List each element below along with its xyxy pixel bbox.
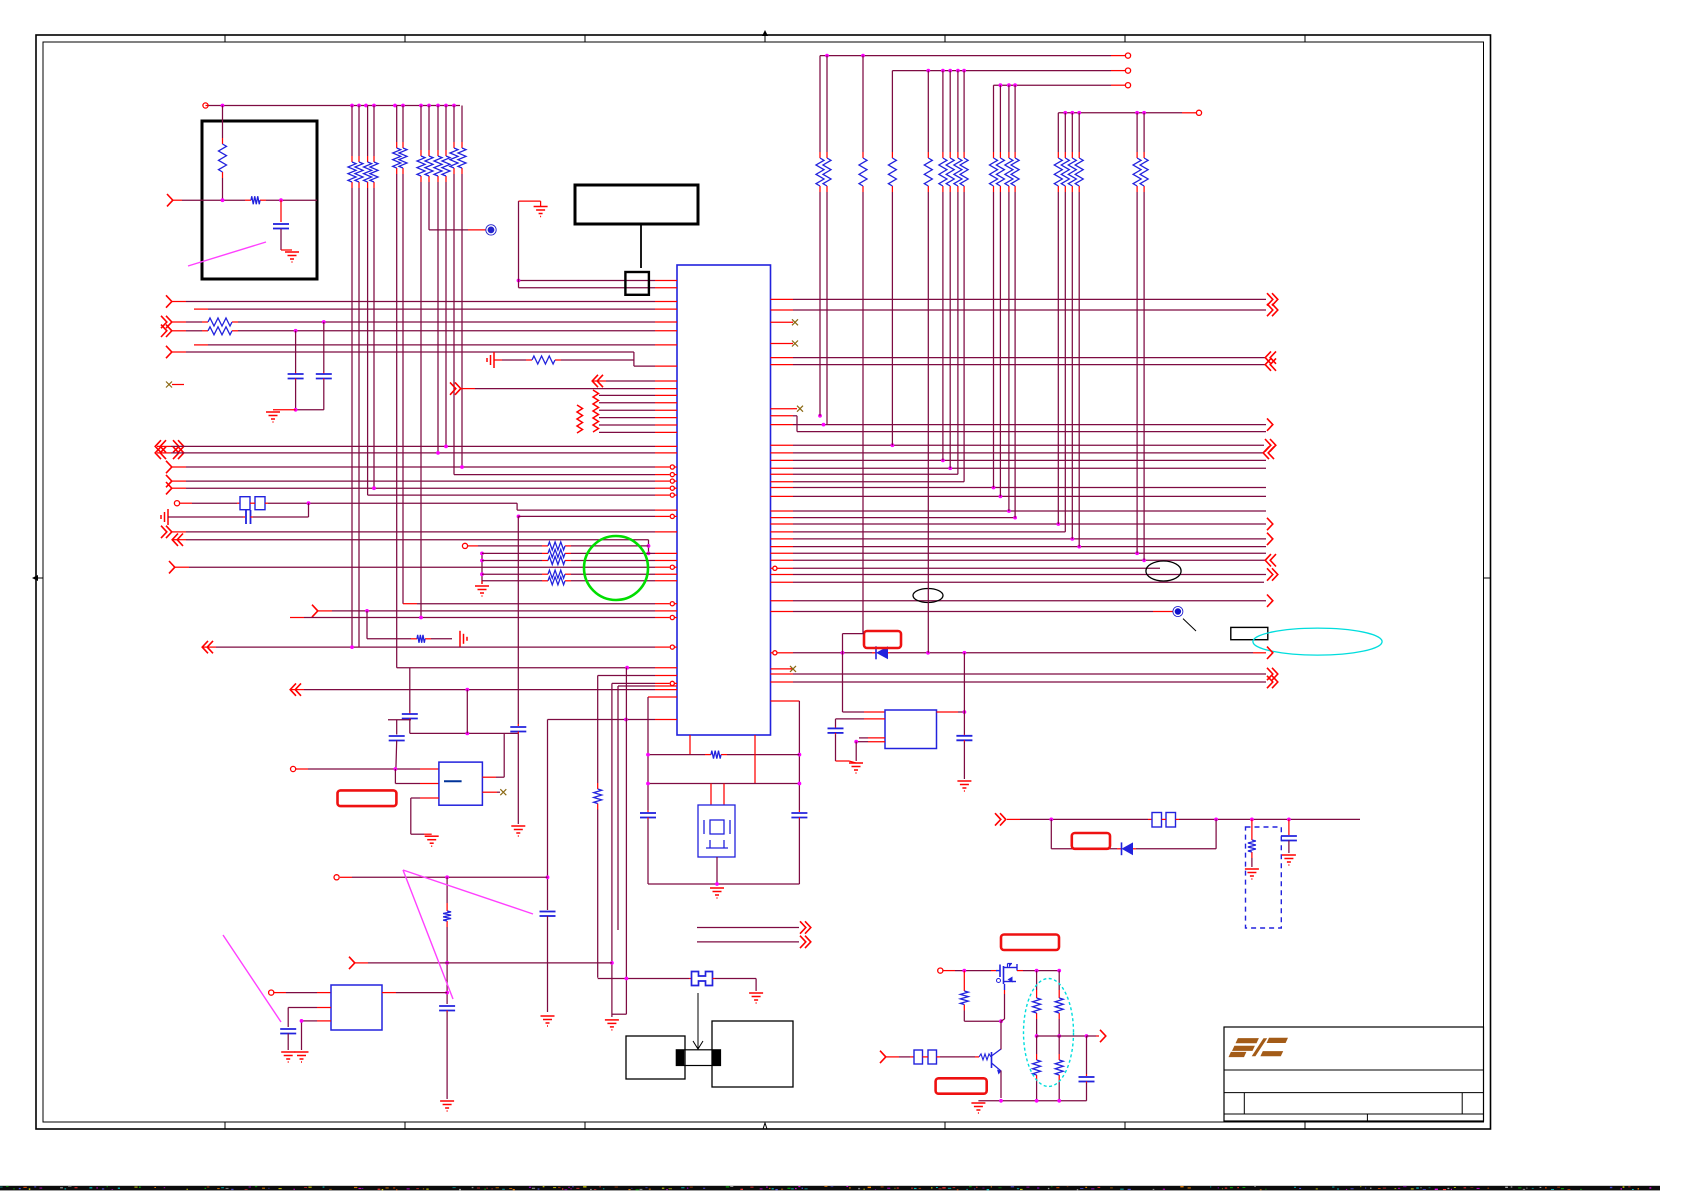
wire rbus y682	[771, 676, 1278, 688]
wire rbus y518	[771, 516, 1017, 520]
wire U4 feed horiz	[843, 633, 864, 635]
wire bus y675	[598, 675, 677, 677]
ground U3 b	[295, 1052, 309, 1062]
wire bus y532	[161, 526, 677, 538]
wire opamp gnd	[411, 798, 439, 834]
wire res-bayonet y639	[367, 611, 411, 639]
wire vertical bus x403	[402, 106, 404, 604]
wire pullup vert x1058.3	[1057, 113, 1059, 524]
resistor R3	[202, 318, 677, 326]
wire rbus stub y343	[771, 341, 799, 347]
wire to bayonet	[431, 638, 452, 640]
wire bus cluster6 line 4	[599, 417, 677, 419]
ground U3 a	[281, 1052, 295, 1062]
wire bjt collector	[1000, 1048, 1002, 1098]
highlight red box opamp	[338, 790, 397, 806]
wire U3 in	[274, 992, 331, 994]
wire vertical bus x438	[437, 106, 439, 453]
resistor R12 vertical	[594, 783, 602, 810]
test point blue dot 2	[486, 225, 496, 235]
ground bottom rail	[971, 1103, 985, 1113]
wire pullup vert x957.9	[957, 71, 959, 475]
resistor RA2	[355, 156, 363, 188]
wire gnd-res y360	[502, 359, 526, 361]
wire rbus y601	[771, 595, 1273, 607]
wire U3 pin2	[288, 1008, 331, 1028]
wire rbus y474	[771, 473, 958, 475]
wire top feeder	[206, 105, 461, 107]
wire rbus y532	[771, 531, 1066, 533]
annotation leader line	[1183, 619, 1196, 631]
label box	[1231, 627, 1268, 639]
wire bus y496	[368, 493, 677, 497]
wire bus y611	[312, 605, 677, 617]
highlight red box diode2	[1072, 833, 1110, 849]
wire pullup vert x1079.2	[1078, 113, 1080, 547]
resistor RB6	[939, 152, 947, 192]
wire rbus y299	[771, 293, 1278, 305]
wire diode loop b	[1133, 819, 1216, 848]
wire out y1036	[1037, 1030, 1106, 1042]
wire bottom rail	[978, 1099, 1086, 1103]
ground opamp	[425, 836, 439, 846]
resistor RB15	[1061, 152, 1069, 192]
wire C14 gnd	[963, 740, 965, 779]
resistor R10	[542, 577, 571, 585]
socket X1 (black square)	[625, 272, 649, 295]
wire crystal gnd line	[168, 516, 245, 518]
wire pullup vert x1072.3	[1071, 113, 1073, 539]
wire ellipse res vert a	[1036, 971, 1038, 992]
wire rc vertical	[480, 552, 484, 585]
wire crystal bottom	[648, 857, 799, 886]
wire res row y754	[646, 753, 801, 757]
wire res to jog	[561, 359, 634, 361]
wire cap branch a	[295, 331, 297, 374]
wire rbus y310	[771, 304, 1278, 316]
wire pullup feeder 3	[994, 83, 1131, 88]
terminal reg-line	[334, 875, 339, 880]
wire U3 pin2 gnd	[287, 1034, 289, 1051]
wire vert x547 drop b	[547, 916, 549, 1012]
wire crystal line b	[265, 501, 517, 505]
wire mosfet a	[943, 969, 997, 973]
capacitor C8	[510, 727, 526, 732]
highlight ellipse 2	[913, 589, 943, 603]
wire rbus y539	[771, 533, 1273, 545]
wire ellipse res a2	[1035, 1019, 1039, 1038]
wire opamp out up	[482, 733, 504, 777]
highlight red box power top	[1001, 935, 1059, 951]
wire mosfet drain down	[1001, 990, 1005, 1021]
wire bus y690	[290, 683, 677, 695]
resistor RB2	[823, 152, 831, 192]
wire bus y604	[403, 602, 677, 606]
resistor RA3	[364, 156, 372, 188]
wire pullup vert x1144.1	[1143, 113, 1145, 561]
filter FB2 (two boxes)	[914, 1050, 937, 1064]
annotation arrow	[693, 993, 703, 1049]
resistor R8	[542, 557, 571, 565]
capacitor C17	[1079, 1077, 1095, 1082]
ground caps	[266, 412, 280, 422]
ground fuse	[749, 993, 763, 1003]
red squiggle arrow column 2	[593, 390, 599, 432]
wire vertical into J1	[222, 106, 224, 139]
fuse F1	[692, 972, 713, 986]
wire vert x1001	[1000, 1021, 1002, 1048]
wire bus PCI3 w/ resistor	[161, 325, 202, 337]
resistor RB12	[1005, 152, 1013, 192]
capacitor C7	[540, 912, 556, 917]
pink annotation line M1	[403, 870, 533, 914]
diode D2	[1122, 842, 1134, 855]
wire rc y546	[468, 545, 542, 547]
resistor R17 base squiggle	[979, 1054, 991, 1060]
capacitor C14	[956, 736, 972, 741]
bottom scanline artifact strip	[0, 1186, 1660, 1191]
wire into dashed box	[1251, 819, 1253, 834]
wire opamp out x	[482, 791, 500, 793]
node dot	[221, 198, 283, 202]
wire vert x597 drop	[597, 676, 599, 784]
highlight green circle	[584, 536, 648, 600]
wire cap drop	[280, 200, 282, 222]
wire pullup feeder 4	[1058, 110, 1201, 115]
no-connect x stub left	[166, 382, 184, 388]
wire to testpoint	[429, 229, 486, 231]
wire vert x618 drop	[617, 686, 619, 930]
wire bus y618	[290, 615, 677, 619]
wire rbus stub y322	[771, 319, 799, 325]
wire bus y516	[517, 514, 677, 518]
wire rbus y652 a	[771, 651, 877, 655]
highlight cyan ellipse right	[1253, 628, 1382, 655]
wire crystal drop	[308, 503, 310, 517]
resistor R11	[411, 635, 431, 643]
resistor RA7	[417, 150, 425, 182]
resistor R15 vertical	[1248, 834, 1256, 858]
resistor RB3	[859, 152, 867, 192]
wire cap branch b	[323, 322, 325, 374]
wire ellipse res vert b	[1058, 971, 1060, 992]
wire vert x447 c	[446, 1011, 448, 1100]
x mark opamp	[500, 789, 506, 795]
highlight ellipse 1	[1146, 561, 1181, 581]
wire pullup vert x1065.3	[1064, 113, 1066, 532]
resistor RB10	[990, 152, 998, 192]
wire C13 gnd	[836, 733, 850, 761]
wire U4 pin3	[859, 737, 885, 739]
resistor R13	[705, 751, 727, 759]
wire rbus y431	[797, 431, 1266, 433]
resistor R6	[542, 542, 571, 550]
wire rc y574b	[571, 573, 677, 575]
capacitor C9	[640, 813, 656, 818]
resistor RB7	[946, 152, 954, 192]
ground x547	[541, 1016, 555, 1026]
resistor RB1	[816, 152, 824, 192]
wire fuse line b	[713, 979, 757, 992]
wire pullup feeder 2	[892, 68, 1130, 73]
jumper body	[676, 1050, 720, 1066]
IC U1 main chip body	[677, 265, 771, 735]
wire bjt base line b	[937, 1056, 980, 1058]
wire pullup vert x1008.9	[1008, 85, 1010, 511]
capacitor C2	[288, 374, 304, 379]
ground C14	[957, 781, 971, 791]
wire port to R2	[173, 199, 245, 201]
wire rbus y424	[771, 418, 1273, 430]
wire port hook	[519, 201, 541, 206]
wire rbus y582	[771, 581, 1265, 583]
wire bjt base line	[886, 1056, 914, 1058]
wire to ground	[273, 409, 296, 411]
resistor RB9	[960, 152, 968, 192]
wire y963	[355, 962, 612, 964]
wire rbus y468	[771, 466, 1267, 470]
ground	[285, 252, 299, 262]
wire res row y754 b	[727, 754, 799, 756]
resistor RA10	[442, 150, 450, 182]
wire cap drop x1086 b	[1086, 1082, 1088, 1101]
ground x447	[440, 1101, 454, 1111]
resistor RB13	[1011, 152, 1019, 192]
wire vert x964	[963, 653, 965, 736]
wire rbus y524	[771, 518, 1273, 530]
wire rbus y496	[771, 495, 1267, 499]
wire pullup feeder 1	[820, 53, 1131, 58]
wire vertical bus x429	[428, 106, 430, 230]
wire U3 out	[382, 992, 447, 994]
wire rbus y611	[771, 611, 1174, 613]
wire bus cluster6 line 5	[599, 424, 677, 426]
wire rbus y445	[771, 439, 1276, 451]
ground R15	[1245, 869, 1259, 879]
resistor RB18	[1133, 152, 1141, 192]
wire bus y481	[166, 475, 677, 487]
capacitor C3	[316, 374, 332, 379]
wire vert x467	[466, 690, 468, 734]
wire chev pair a	[697, 921, 811, 933]
wire rc y561b	[571, 560, 677, 562]
wire pullup vert x964.1	[963, 71, 965, 482]
resistor RA12	[458, 142, 466, 174]
wire rbus y674	[771, 668, 1278, 680]
transistor Q1 (MOSFET)	[996, 964, 1017, 991]
wire reg-line	[340, 875, 548, 879]
wire C16 gnd	[1288, 841, 1290, 854]
wire R15 gnd	[1251, 858, 1253, 867]
resistor R19 vertical	[1033, 1054, 1041, 1081]
wire bus y647	[202, 641, 677, 653]
diode D1	[876, 646, 888, 659]
resistor RB19	[1140, 152, 1148, 192]
wire rc y561	[482, 560, 542, 562]
wire U4 out	[937, 710, 967, 714]
wire rbus jog y416	[771, 414, 822, 432]
ground top center	[534, 207, 548, 217]
wire bus y388	[450, 382, 677, 394]
arrow chev y963	[349, 957, 355, 969]
bayonet ground crystal	[161, 509, 168, 525]
op-amp U2	[439, 762, 483, 805]
pink annotation line M3	[223, 935, 281, 1022]
regulator U4	[885, 710, 937, 749]
resistor R7	[542, 549, 571, 557]
wire vert x611 drop	[610, 683, 614, 1017]
wire vertical bus x421	[420, 106, 422, 618]
wire mosfet b	[1017, 969, 1061, 973]
wire crystal jog	[517, 503, 677, 510]
arrow chev bjt	[880, 1051, 886, 1063]
wire rbus y460	[771, 459, 1267, 463]
resistor RB14	[1054, 152, 1062, 192]
wire C16 branch	[1288, 819, 1290, 835]
resistor RB5	[924, 152, 932, 192]
terminal res-cluster	[462, 543, 467, 548]
wire bus cluster6 line 6	[599, 431, 677, 433]
wire vert x547 drop	[546, 720, 550, 911]
ground x518	[511, 826, 525, 836]
wire pullup vert x942.9	[942, 71, 944, 461]
pink annotation line M2	[403, 870, 453, 999]
wire bus y719	[548, 718, 678, 722]
wire loop right vert	[798, 701, 800, 812]
wire vert x626 drop	[612, 668, 627, 1015]
wire diode loop	[1051, 819, 1121, 848]
wire cap drop x410	[409, 668, 411, 714]
wire bus cluster6 line 3	[599, 409, 677, 411]
wire bus jog y352	[166, 346, 634, 366]
wire vertical bus x446	[445, 106, 447, 447]
wire pullup vert x1000.4	[999, 85, 1001, 496]
wire bus AD2	[155, 447, 677, 459]
wire loop left vert	[647, 697, 649, 812]
wire bus y686	[618, 685, 677, 687]
wire row y783	[646, 782, 801, 786]
wire bus PCI1	[166, 295, 677, 307]
wire crystal gnd line b	[251, 516, 309, 518]
resistor RA11	[450, 142, 458, 174]
capacitor C6 hook	[388, 720, 411, 769]
resistor RB8	[954, 152, 962, 192]
wire cap to gnd	[281, 229, 292, 250]
terminal U3 in	[269, 990, 274, 995]
wire res drop x964	[963, 971, 965, 985]
resistor RA6	[399, 142, 407, 174]
wire vertical bus x454	[453, 106, 455, 475]
wire crystal drops	[711, 784, 724, 806]
red squiggle arrow column 1	[577, 405, 583, 433]
resistor R18 vertical	[1033, 992, 1041, 1019]
wire vertical bus x352	[351, 106, 353, 648]
pin stub U1 bottom-left	[648, 696, 677, 698]
wire vertical bus x359	[358, 106, 360, 648]
wire bus y668	[397, 666, 677, 670]
FIC logo	[1229, 1038, 1289, 1057]
resistor R9	[542, 570, 571, 578]
wire pullup vert x993.5	[993, 85, 995, 487]
wire vertical bus x367.6	[367, 106, 369, 496]
arrow port left y200	[167, 194, 173, 206]
bayonet ground y639	[460, 631, 467, 647]
wire bus y683	[612, 681, 677, 685]
component block K2 (black box right)	[712, 1021, 793, 1087]
wire pullup vert x863	[862, 56, 864, 634]
resistor R20 vertical	[1055, 992, 1063, 1019]
wire y819 a	[1007, 818, 1152, 822]
wire chev pair b	[697, 936, 811, 948]
pin stub U1 bottom-right	[771, 700, 800, 702]
component block K1 (black box left)	[626, 1036, 685, 1079]
wire R2 to corner	[266, 199, 317, 201]
wire pullup vert x892.4	[891, 71, 893, 446]
wire rbus y488	[771, 486, 1267, 490]
wire pullup vert x1137.1	[1136, 113, 1138, 553]
resistor RB4	[888, 152, 896, 192]
wire vert x597 drop b	[597, 810, 599, 978]
wire U4 pin4	[854, 740, 885, 761]
wire rc y553b	[571, 552, 677, 554]
resistor RB11	[996, 152, 1004, 192]
wire bus PCI2 w/ resistor	[161, 316, 202, 328]
wire loop right vert b	[798, 818, 800, 885]
wire crystal line a	[180, 502, 240, 504]
oscillator Y1 outline (black box)	[575, 185, 698, 224]
wire U4 feed vert	[843, 634, 886, 712]
ground C16	[1282, 855, 1296, 865]
node dots on top feeder	[221, 104, 456, 108]
wire vertical bus x374	[373, 106, 375, 489]
wire X1 feed b	[519, 287, 678, 289]
resistor R2	[245, 196, 266, 204]
terminal opamp	[291, 766, 296, 771]
wire bus cluster6 line 2	[599, 402, 677, 404]
wire ellipse res b2	[1057, 1019, 1061, 1038]
wire Y1 stem	[640, 223, 642, 268]
sheet border outer frame	[36, 35, 1491, 1129]
transistor Q2 (BJT)	[992, 1049, 1002, 1075]
wire cap drop x1086	[1086, 1036, 1088, 1076]
wire bus no-arrow	[194, 344, 677, 346]
terminal mosfet line	[938, 968, 943, 973]
wire rbus y482	[771, 481, 965, 483]
capacitor C11	[439, 1006, 455, 1011]
wire bus y567 long	[169, 561, 677, 573]
wire vert x518 upper	[518, 201, 520, 288]
title block	[1224, 1027, 1484, 1121]
capacitor C4 series	[246, 510, 251, 524]
ground res-cluster	[475, 586, 489, 596]
wire rbus stub y669	[771, 666, 797, 672]
resistor R14 vertical	[443, 905, 451, 927]
wire rbus y364	[771, 358, 1277, 370]
wire cap branch b2	[294, 379, 324, 412]
wire rbus y568	[771, 566, 1161, 570]
wire rc y581b	[571, 580, 677, 582]
resistor R21 vertical	[1055, 1054, 1063, 1081]
capacitor C1	[273, 224, 289, 229]
ground x611	[605, 1020, 619, 1030]
capacitor C16	[1281, 836, 1297, 841]
resistor RA1	[348, 156, 356, 188]
connector J1 outline (top-left black box)	[202, 121, 317, 279]
capacitor C12	[280, 1029, 296, 1034]
wire vert x447	[446, 877, 448, 905]
wire fuse line	[598, 977, 692, 981]
wire bus y467	[166, 461, 677, 473]
